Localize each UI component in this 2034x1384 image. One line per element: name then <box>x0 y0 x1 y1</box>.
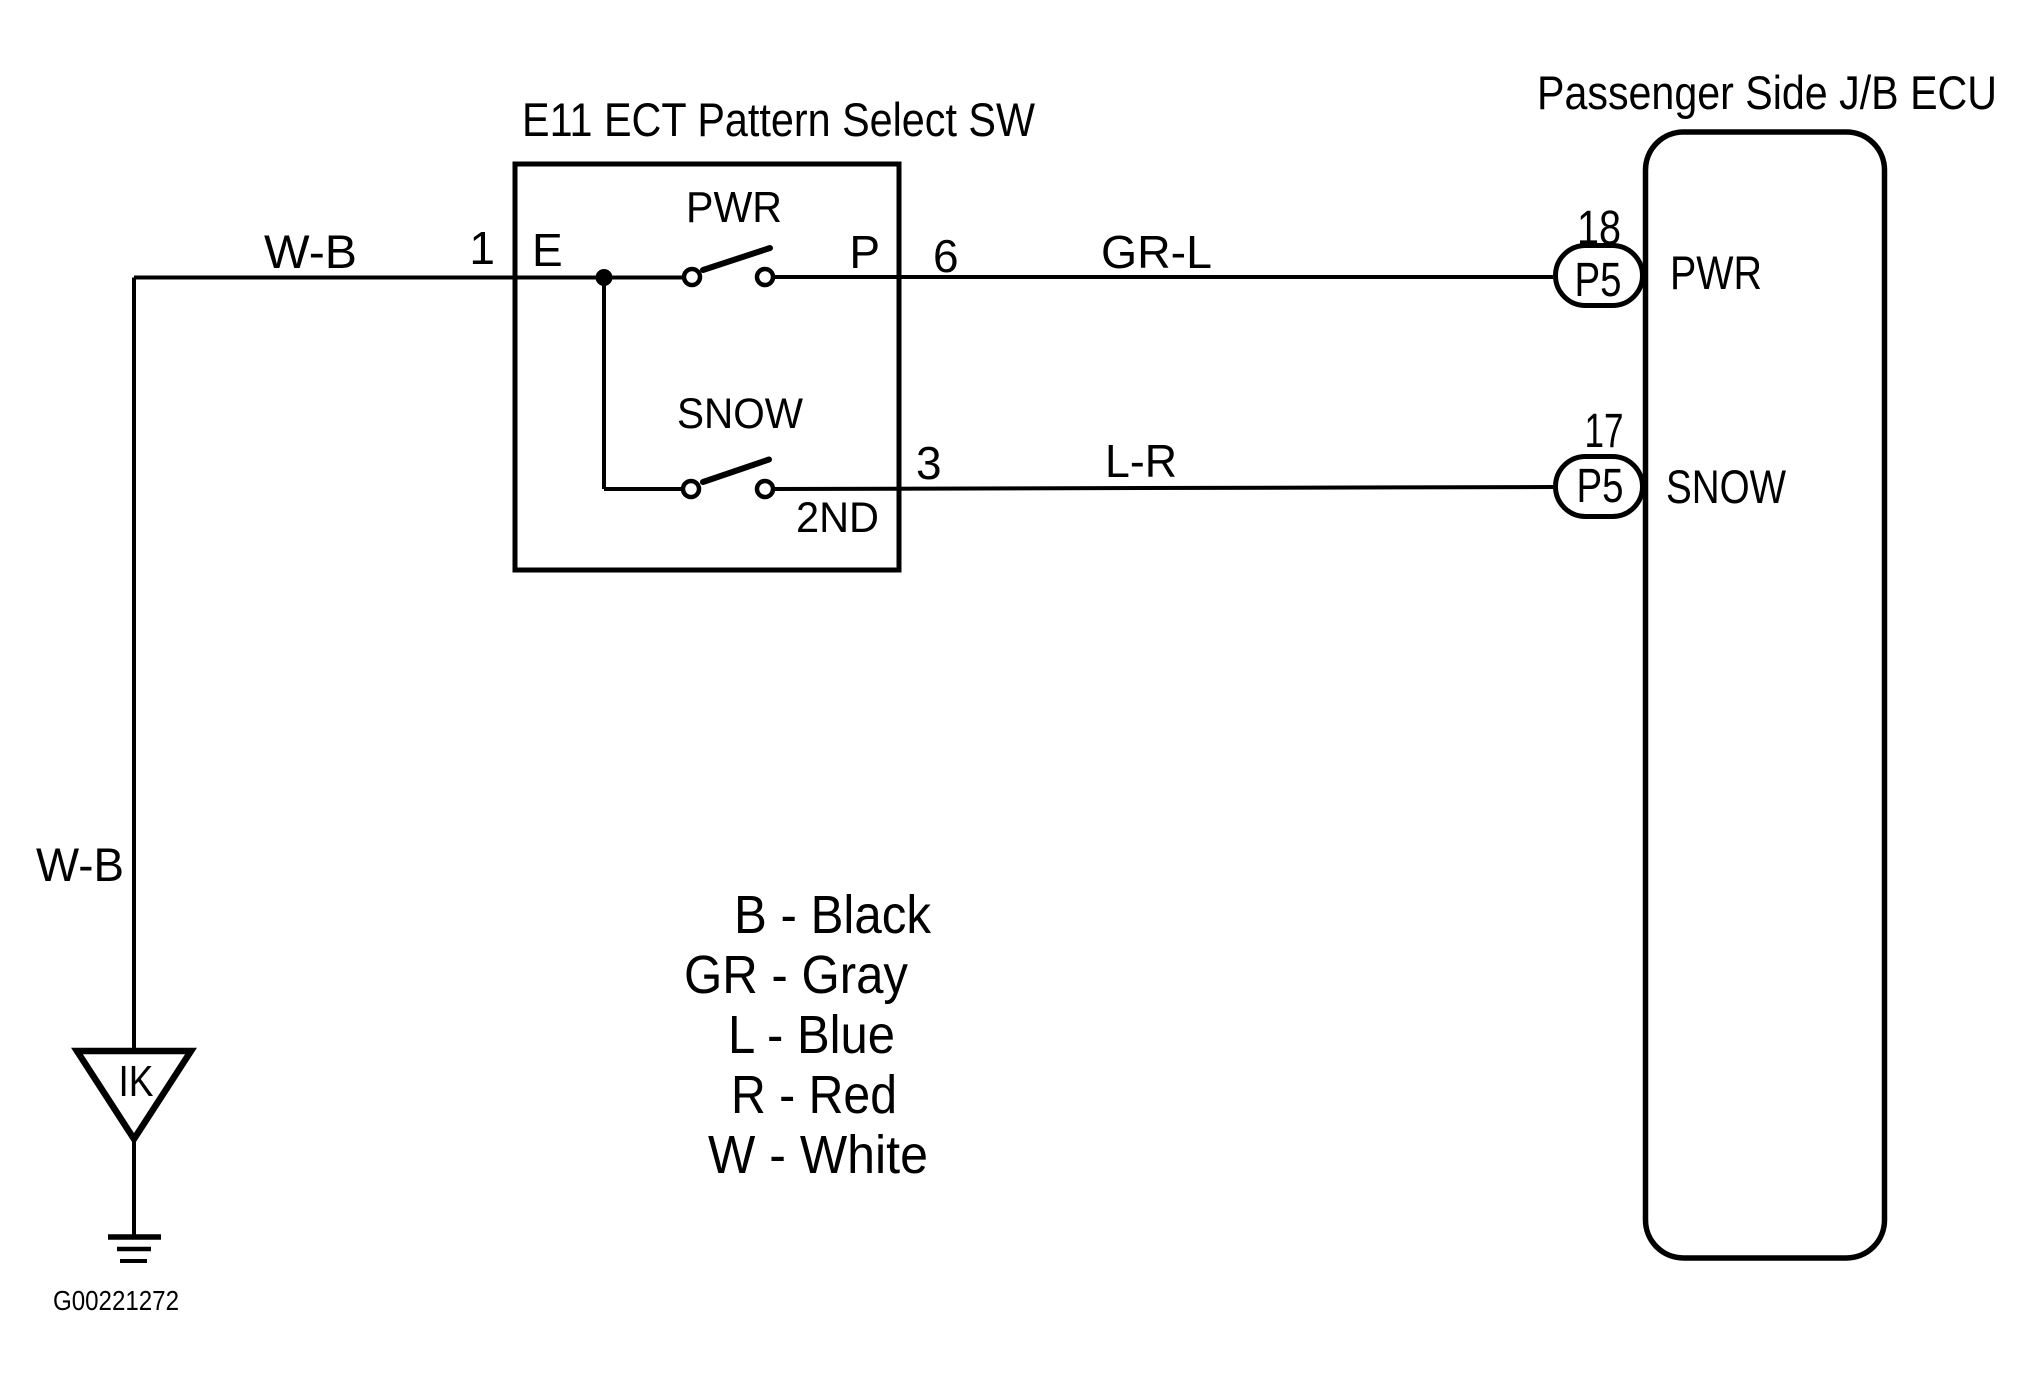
svg-text:E11 ECT Pattern Select SW: E11 ECT Pattern Select SW <box>522 93 1036 146</box>
svg-text:6: 6 <box>933 230 959 282</box>
svg-text:W-B: W-B <box>264 225 357 278</box>
svg-text:L - Blue: L - Blue <box>728 1005 895 1065</box>
svg-text:17: 17 <box>1585 405 1624 458</box>
svg-text:R - Red: R - Red <box>731 1065 897 1125</box>
svg-text:G00221272: G00221272 <box>53 1285 179 1316</box>
svg-text:SNOW: SNOW <box>1666 460 1787 513</box>
svg-text:GR - Gray: GR - Gray <box>684 945 908 1005</box>
svg-text:W-B: W-B <box>36 838 124 891</box>
svg-text:18: 18 <box>1577 202 1621 255</box>
svg-text:PWR: PWR <box>686 183 782 232</box>
svg-text:Passenger Side J/B ECU: Passenger Side J/B ECU <box>1537 66 1997 119</box>
svg-text:B - Black: B - Black <box>734 885 932 945</box>
svg-text:3: 3 <box>916 437 942 489</box>
svg-text:IK: IK <box>119 1057 154 1106</box>
svg-text:P5: P5 <box>1575 254 1622 307</box>
svg-text:GR-L: GR-L <box>1101 226 1212 278</box>
svg-text:SNOW: SNOW <box>677 390 803 438</box>
svg-text:PWR: PWR <box>1670 246 1762 299</box>
svg-text:P: P <box>849 226 880 278</box>
svg-text:L-R: L-R <box>1105 435 1177 487</box>
svg-text:E: E <box>532 224 563 276</box>
svg-text:2ND: 2ND <box>796 494 879 542</box>
svg-text:1: 1 <box>469 222 495 274</box>
svg-text:P5: P5 <box>1577 460 1624 513</box>
svg-text:W - White: W - White <box>708 1125 928 1185</box>
